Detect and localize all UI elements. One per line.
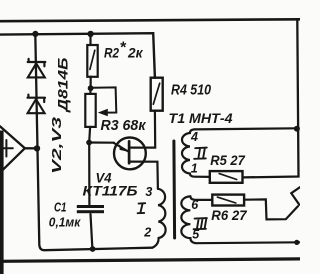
svg-text:V2,V3: V2,V3 [49,116,64,174]
svg-text:КТ117Б: КТ117Б [83,182,138,198]
svg-text:1: 1 [191,162,198,176]
svg-text:С1: С1 [54,200,67,215]
svg-text:R2: R2 [104,45,119,61]
svg-text:4: 4 [190,130,198,144]
svg-text:2к: 2к [127,45,143,61]
svg-text:3: 3 [145,185,152,199]
svg-text:R6 27: R6 27 [211,207,247,223]
svg-text:0,1мк: 0,1мк [49,214,82,229]
svg-text:R5 27: R5 27 [210,152,246,168]
svg-text:Д814Б: Д814Б [56,57,71,113]
svg-text:6: 6 [191,198,199,212]
svg-text:R3 68к: R3 68к [101,118,147,134]
svg-text:2: 2 [143,226,151,240]
svg-text:R4 510: R4 510 [171,81,212,98]
svg-text:5: 5 [192,227,200,241]
svg-text:Т1 МНТ-4: Т1 МНТ-4 [169,110,233,126]
svg-text:*: * [120,40,127,57]
